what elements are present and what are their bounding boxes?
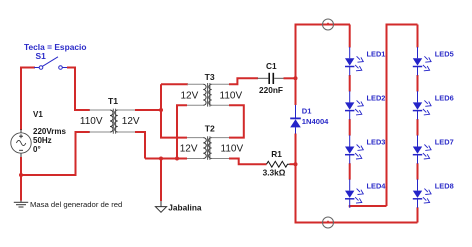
svg-text:LED2: LED2: [367, 93, 386, 102]
LED5: [413, 47, 431, 76]
svg-text:LED8: LED8: [435, 182, 454, 191]
wire LED column 1 top: [349, 25, 351, 48]
svg-text:110V: 110V: [220, 90, 243, 101]
wire riser D1 section: node A to node B: [295, 78, 297, 105]
LED2: [345, 91, 363, 120]
svg-text:T3: T3: [205, 72, 215, 82]
svg-text:Masa del generador de red: Masa del generador de red: [30, 200, 122, 209]
diode D1 (1N4004), pointing up: [290, 105, 301, 134]
svg-text:12V: 12V: [181, 90, 199, 101]
wire LED8 bottom to bottom rail: [417, 207, 419, 222]
AC source V1: [11, 129, 31, 157]
junction dot node B (295.5,164.2): [294, 162, 298, 166]
wire T1 bottom-right down: [135, 132, 145, 159]
junction dot at (161,110): [159, 108, 163, 112]
svg-text:50Hz: 50Hz: [33, 136, 52, 145]
svg-text:110V: 110V: [221, 143, 244, 154]
svg-text:V1: V1: [33, 110, 43, 119]
wire between LED3 and LED4: [349, 163, 351, 180]
svg-text:LED1: LED1: [367, 49, 386, 58]
wire T2 bottom-right to R1: [229, 159, 267, 165]
ground Jabalina: [155, 201, 166, 212]
LED3: [345, 135, 363, 164]
current probe bottom: [323, 217, 334, 228]
svg-text:12V: 12V: [180, 143, 198, 154]
wire between LED2 and LED3: [349, 119, 351, 136]
transformer T3: [187, 83, 229, 107]
wire between LED5 and LED6: [417, 75, 419, 92]
wire T3 bottom-left down to bottom net: [177, 105, 187, 158]
switch S1: [34, 57, 68, 69]
LED4: [345, 179, 363, 208]
LED6: [413, 91, 431, 120]
svg-text:S1: S1: [36, 51, 47, 61]
wire between LED1 and LED2: [349, 75, 351, 92]
wire R1 to riser node B: [290, 163, 296, 165]
wire T3 bottom-right to T2 top-right (series link): [229, 105, 244, 137]
wire T3 top-right to C1: [229, 78, 258, 84]
wire to Jabalina ground: [160, 159, 162, 202]
wire C1 to riser node A: [284, 77, 296, 79]
wire riser bottom to bottom rail: [296, 164, 418, 222]
svg-text:220Vrms: 220Vrms: [33, 127, 66, 136]
junction dot at (161,158.5): [159, 157, 163, 161]
svg-text:220nF: 220nF: [259, 85, 283, 95]
svg-text:R1: R1: [271, 149, 282, 159]
wire LED4 bottom to return column: [350, 206, 387, 207]
LED7: [413, 135, 431, 164]
wire T1 bottom-left to V1 bottom rail: [21, 132, 90, 175]
svg-text:Tecla = Espacio: Tecla = Espacio: [24, 42, 86, 52]
junction dot at (177,158.5): [175, 157, 179, 161]
wire between LED7 and LED8: [417, 163, 419, 180]
svg-text:110V: 110V: [80, 116, 103, 127]
svg-text:LED4: LED4: [367, 182, 387, 191]
svg-text:3.3kΩ: 3.3kΩ: [263, 168, 286, 178]
svg-text:T1: T1: [108, 96, 118, 106]
svg-text:12V: 12V: [122, 116, 140, 127]
wire riser top: node A up and over to LED1 column: [296, 25, 351, 79]
svg-text:C1: C1: [266, 61, 277, 71]
wire T1 top-right to net1 vertical: [135, 109, 161, 111]
svg-text:1N4004: 1N4004: [302, 117, 329, 126]
wire net1 vertical (to T3 and T2 primaries): [161, 84, 187, 137]
svg-text:Jabalina: Jabalina: [168, 202, 202, 212]
capacitor C1: [258, 73, 285, 84]
transformer T1: [89, 109, 136, 134]
svg-text:LED3: LED3: [367, 138, 386, 147]
wire LED column 2 top: [417, 25, 419, 48]
wire to T3 top-left pin: [161, 83, 188, 85]
ground (Masa del generador de red): [14, 201, 28, 208]
svg-text:LED6: LED6: [435, 93, 454, 102]
wire between LED6 and LED7: [417, 119, 419, 136]
LED1: [345, 47, 363, 76]
wire V1 top to switch S1 left: [21, 68, 35, 131]
wire return column up and over to LED5 column: [387, 25, 418, 207]
junction dot at (21,175): [19, 173, 23, 177]
wire switch S1 right to T1 top-left: [67, 68, 90, 111]
svg-text:LED5: LED5: [435, 49, 454, 58]
svg-text:D1: D1: [302, 107, 312, 116]
svg-text:T2: T2: [205, 123, 215, 133]
wire V1 bottom to ground: [20, 157, 22, 201]
wire bottom net to T2 bottom-left: [145, 158, 187, 160]
LED8: [413, 179, 431, 208]
junction dot node A (295.5,78.3): [294, 76, 298, 80]
transformer T2: [187, 136, 229, 160]
current probe top: [323, 19, 334, 30]
svg-text:0°: 0°: [33, 145, 41, 154]
resistor R1: [267, 161, 290, 167]
svg-text:LED7: LED7: [435, 138, 454, 147]
